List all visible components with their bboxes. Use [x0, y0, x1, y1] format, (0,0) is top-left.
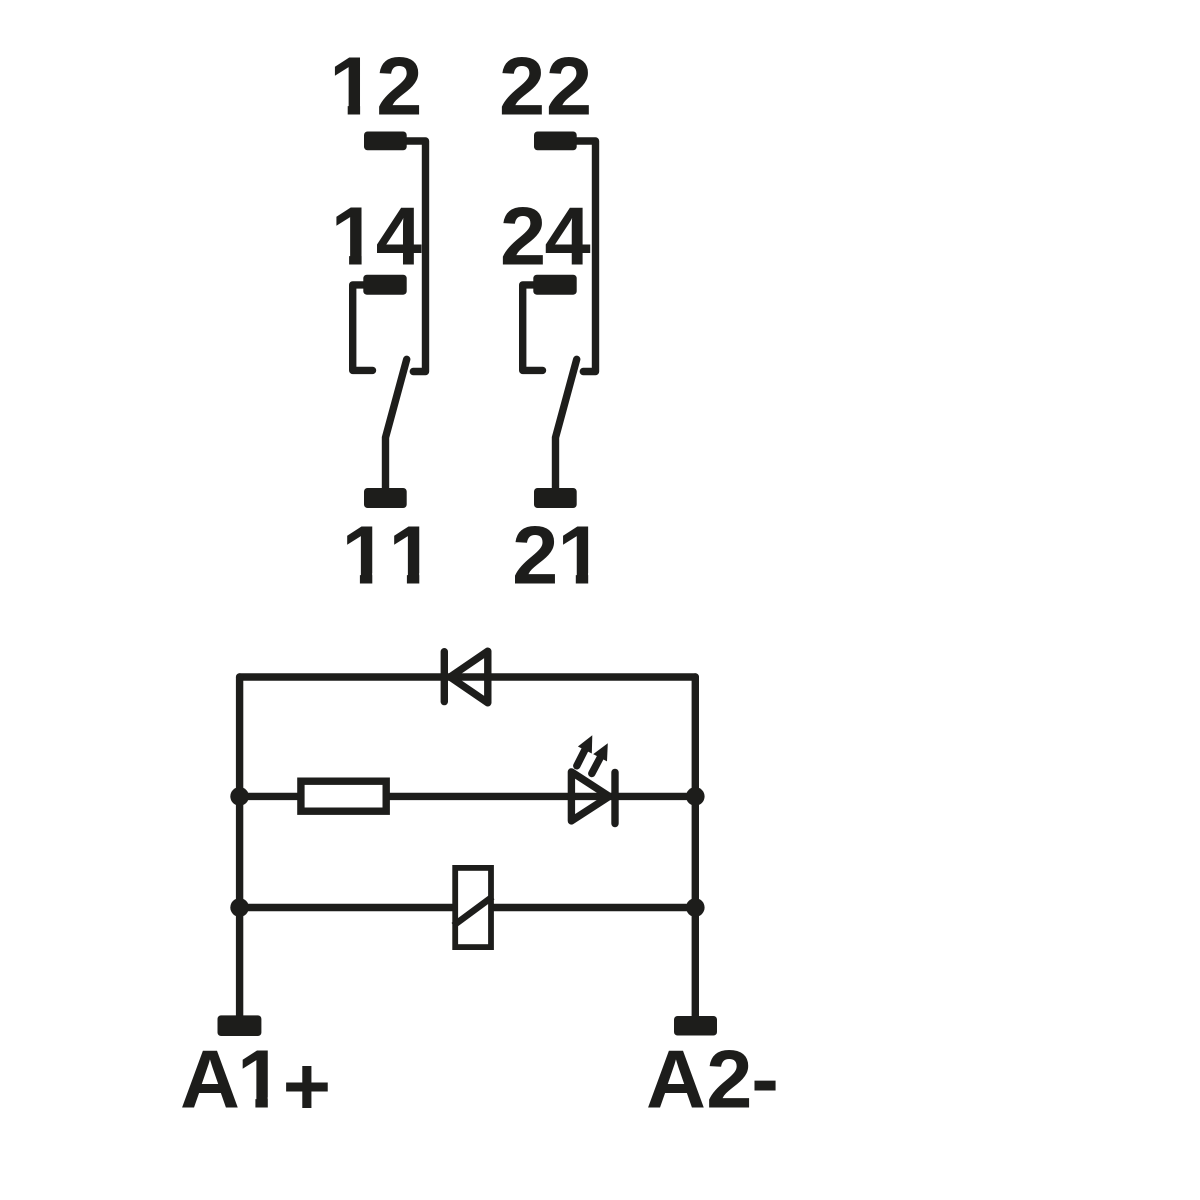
svg-text:A: A	[180, 1032, 240, 1125]
svg-text:1: 1	[237, 1032, 283, 1125]
svg-text:+: +	[283, 1040, 331, 1133]
svg-text:1: 1	[331, 190, 377, 283]
svg-text:2: 2	[499, 40, 545, 133]
svg-text:1: 1	[389, 508, 435, 601]
svg-text:1: 1	[329, 40, 375, 133]
svg-text:-: -	[751, 1032, 779, 1125]
svg-text:2: 2	[546, 40, 592, 133]
svg-text:4: 4	[376, 190, 422, 283]
svg-text:1: 1	[342, 508, 388, 601]
svg-text:2: 2	[706, 1032, 752, 1125]
svg-text:1: 1	[557, 508, 603, 601]
svg-text:2: 2	[500, 190, 546, 283]
svg-text:2: 2	[512, 508, 558, 601]
svg-text:4: 4	[545, 190, 591, 283]
svg-text:2: 2	[376, 40, 422, 133]
svg-text:A: A	[646, 1032, 706, 1125]
